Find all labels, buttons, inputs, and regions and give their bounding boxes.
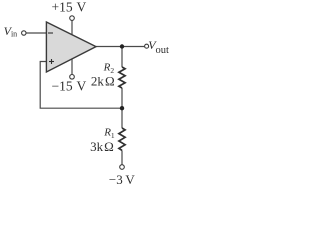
svg-text:2k Ω: 2k Ω bbox=[91, 74, 115, 89]
svg-text:+15 V: +15 V bbox=[52, 0, 87, 14]
svg-text:−3 V: −3 V bbox=[109, 172, 135, 187]
svg-text:3k Ω: 3k Ω bbox=[90, 139, 114, 154]
svg-text:−15 V: −15 V bbox=[52, 78, 87, 93]
